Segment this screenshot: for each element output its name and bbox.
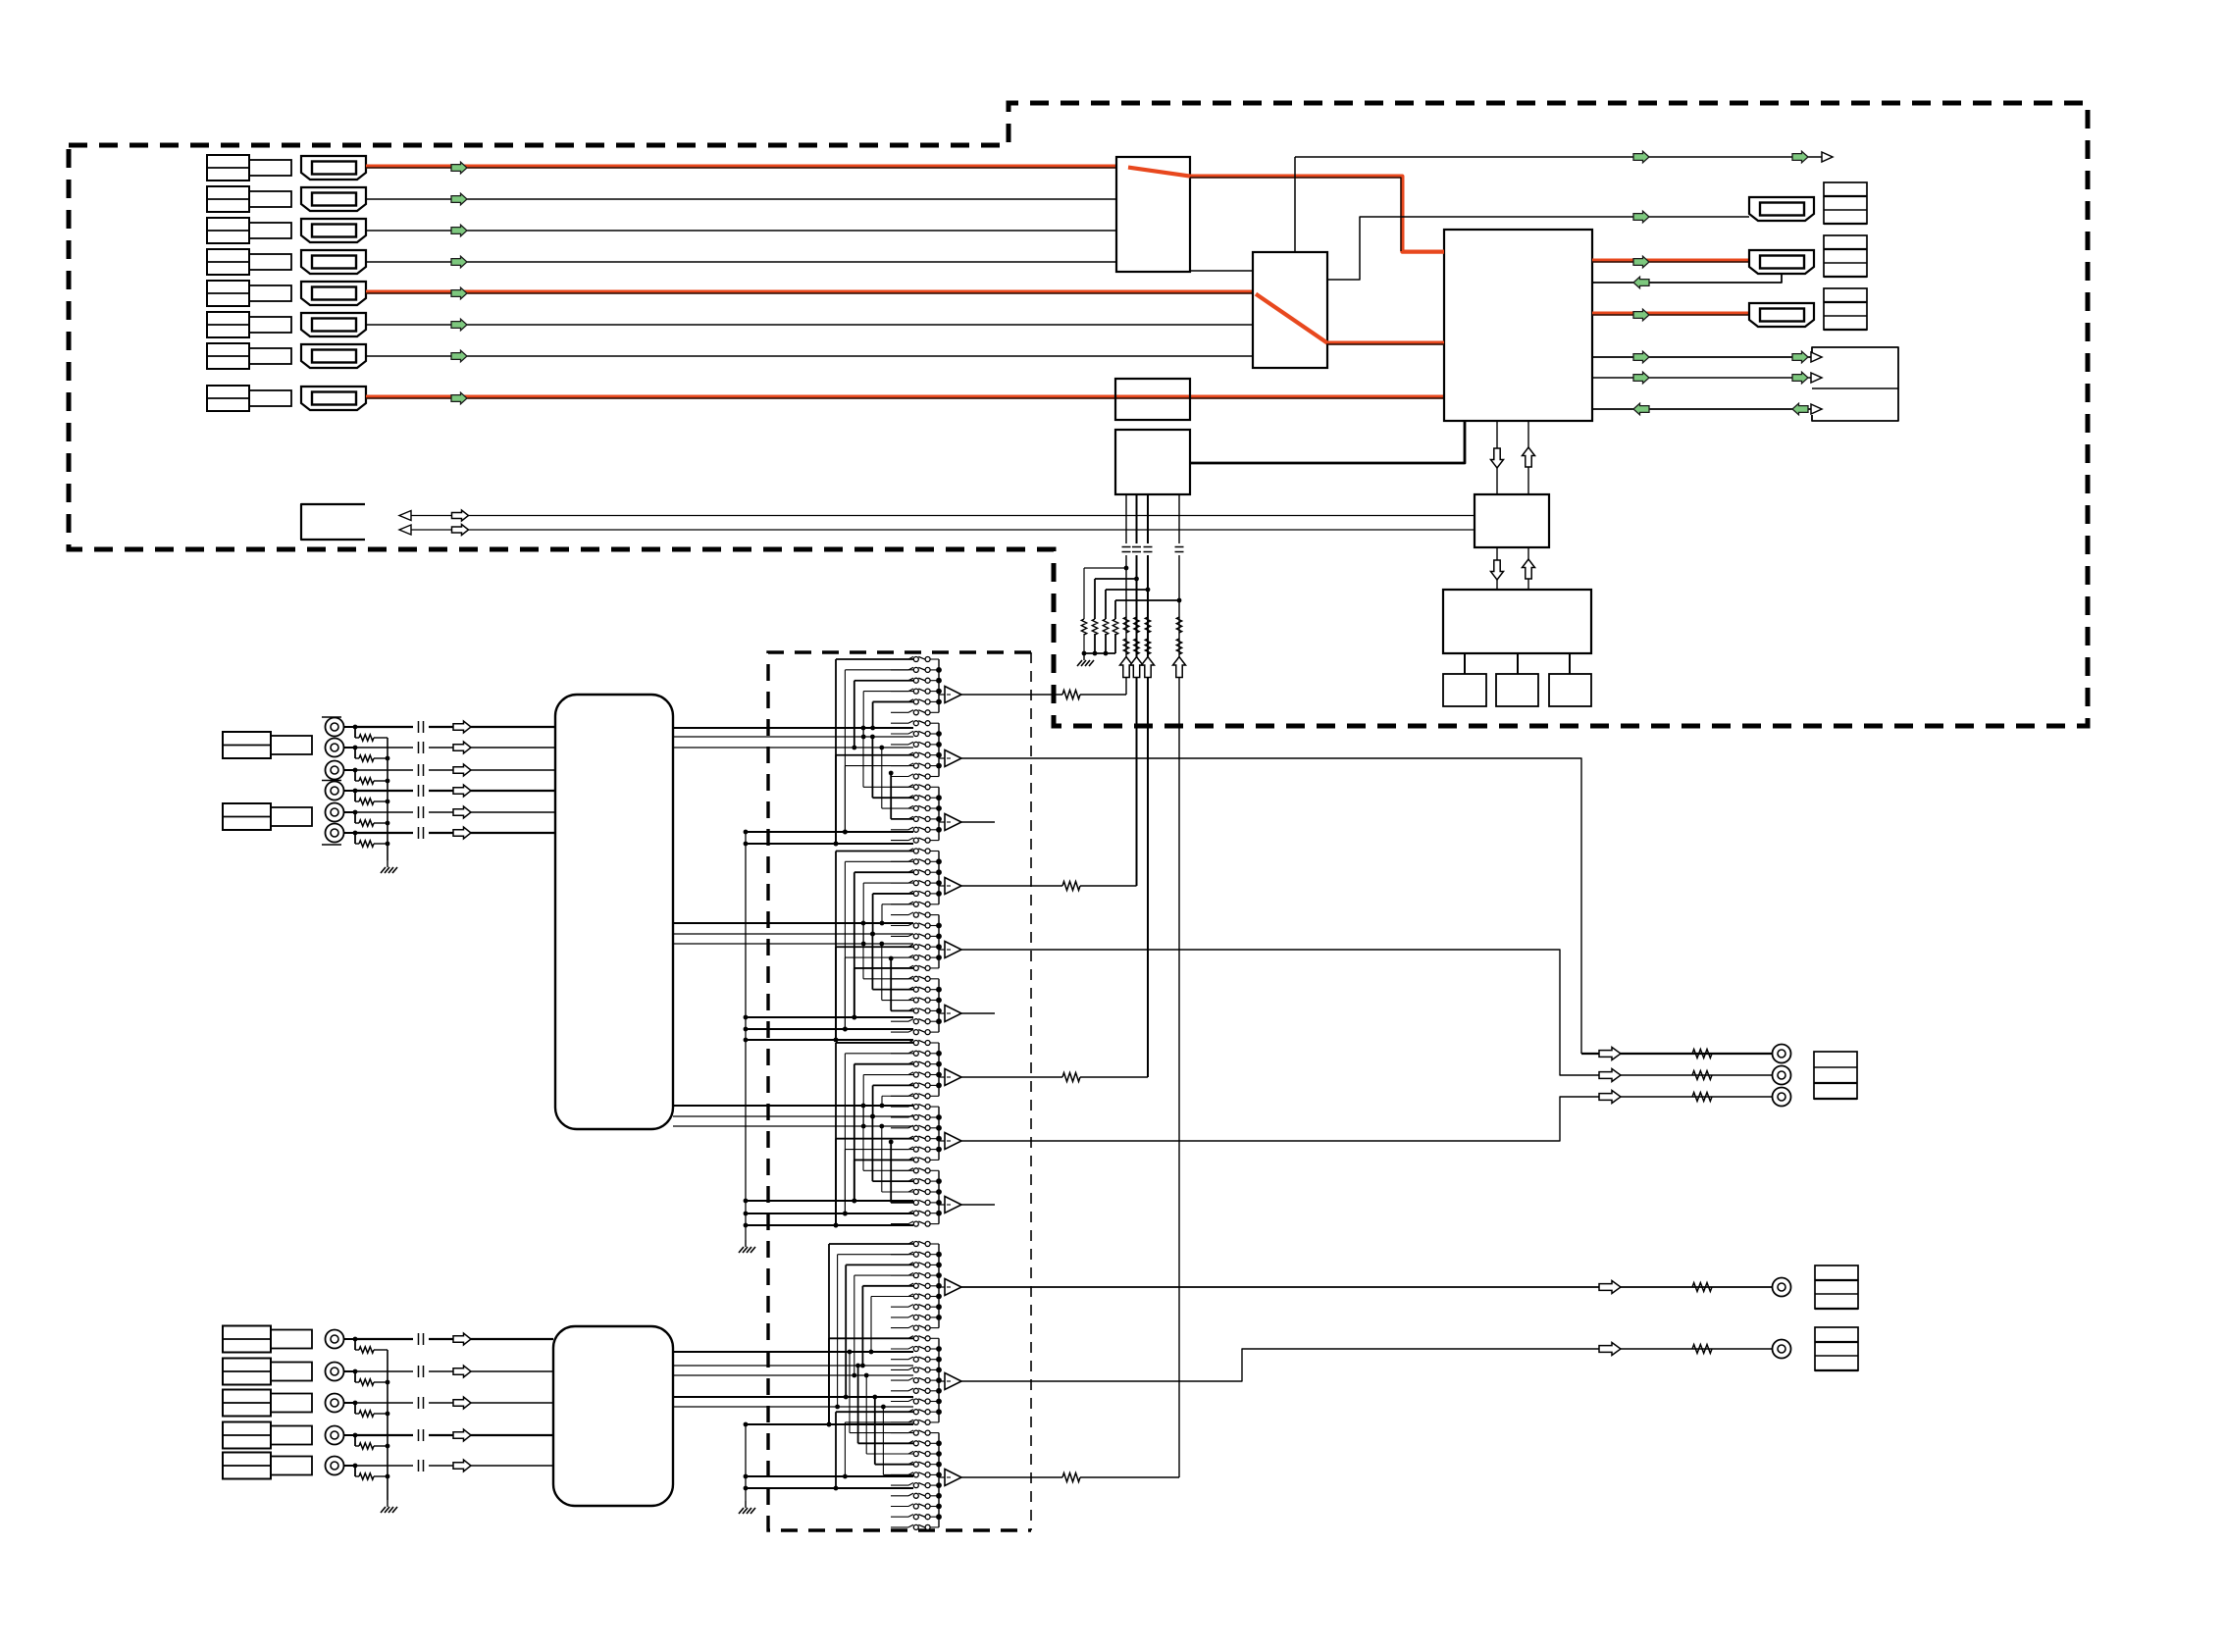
feeder ch3 bank2 drop 1 — [836, 1138, 913, 1140]
matrix common bus upper — [745, 832, 747, 1240]
input connector pair P5 — [207, 281, 249, 306]
analog switch SW56 — [891, 1254, 908, 1256]
analog switch SW21 — [891, 871, 908, 873]
feeder ch1 bank2 drop 2 — [845, 765, 913, 767]
box U3 main AV switch — [1444, 230, 1592, 421]
output route 3 (B8) — [961, 1097, 1772, 1141]
output route 4 (B10) — [961, 1286, 1772, 1288]
feeder ch3 bank1 drop 5 — [873, 1084, 913, 1086]
matrix output bus bank 9 — [938, 1170, 940, 1223]
feed line S4-4 — [673, 1396, 913, 1398]
analog switch SW17 — [891, 829, 908, 831]
output route 1 (B2) — [961, 758, 1581, 1054]
analog switch SW39 — [891, 1063, 908, 1065]
wire to bundle y1430 — [429, 1402, 553, 1404]
SCART connector J2 — [301, 187, 366, 211]
signal wire row 6 — [366, 324, 1253, 326]
analog switch SW67 — [891, 1368, 908, 1370]
green arrow row 6 — [451, 319, 467, 331]
wire jack stub y828 — [344, 811, 356, 813]
AV bus vertical V2 — [1136, 494, 1138, 543]
feed line S2-1 — [673, 922, 913, 924]
buffer amplifier B4 — [939, 885, 945, 887]
analog switch SW82 — [891, 1526, 908, 1528]
analog switch SW23 — [891, 893, 908, 895]
arrow signal direction y1398 — [453, 1366, 471, 1377]
wire U3 to G line2 — [1592, 377, 1812, 379]
red route through U1 — [1128, 168, 1190, 177]
wire to bundle y1365 — [429, 1338, 553, 1340]
analog switch SW58 — [891, 1274, 908, 1276]
feed line S4-2 — [673, 1365, 913, 1367]
analog switch SW26 — [891, 925, 908, 927]
analog switch SW30 — [891, 967, 908, 969]
buffer amplifier B5 — [939, 949, 945, 951]
arrow signal direction y828 — [453, 806, 471, 818]
coupling capacitor y806 — [418, 785, 420, 797]
feeder ch4 bank2b drop 2 — [845, 1421, 913, 1423]
buffer B6 stub — [961, 1012, 995, 1014]
wire jack stub y849 — [344, 832, 356, 834]
box control port (open right) — [301, 504, 365, 540]
analog switch SW12 — [891, 776, 908, 778]
wire H to M3 — [1569, 653, 1571, 674]
analog switch SW71 — [891, 1411, 908, 1413]
buffer B1 output to V1 — [961, 694, 1062, 696]
wire to bundle y1398 — [429, 1370, 553, 1372]
analog switch SW2 — [891, 669, 908, 671]
analog switch SW40 — [891, 1074, 908, 1076]
green arrow row 8 — [451, 392, 467, 404]
matrix output bus bank 10 — [938, 1244, 940, 1328]
wire jack stub y1494 — [344, 1465, 356, 1467]
termination resistor y785 — [354, 770, 356, 781]
analog switch SW4 — [891, 691, 908, 693]
analog switch SW47 — [891, 1149, 908, 1151]
arrow signal direction y1430 — [453, 1397, 471, 1409]
analog switch SW73 — [891, 1432, 908, 1434]
wire to bundle y1494 — [429, 1465, 553, 1467]
common feed line C6 — [746, 1200, 913, 1202]
feeder ch2 bank2 drop 2 — [845, 956, 913, 958]
buffer amplifier B9 — [939, 1204, 945, 1206]
coupling capacitor y1494 — [418, 1460, 420, 1471]
feeder ch2 bank2 drop 3 — [854, 967, 913, 969]
red signal wire row 5 — [366, 290, 1253, 294]
terminal block T3 — [1824, 288, 1867, 330]
coupling capacitor y785 — [418, 764, 420, 776]
feeder ch3 bank3 rise 1 — [863, 1169, 913, 1171]
wire jack stub y785 — [344, 769, 356, 771]
feeder ch2 bank1 drop 6 — [882, 903, 913, 905]
up arrow on V1 — [1120, 657, 1133, 678]
terminal block T1 — [1824, 182, 1867, 224]
series resistor pair on V4 — [1176, 617, 1181, 633]
buffer amplifier B10 — [939, 1286, 945, 1288]
analog switch SW68 — [891, 1379, 908, 1381]
box U5 interface — [1115, 430, 1190, 494]
feeder ch3 bank3 rise 2 — [872, 1180, 913, 1182]
wire to bundle y806 — [429, 790, 555, 792]
wire jack stub y1398 — [344, 1370, 356, 1372]
analog switch SW55 — [891, 1243, 908, 1245]
analog switch SW16 — [891, 818, 908, 820]
feed line S4-5 — [673, 1406, 913, 1408]
analog switch SW36 — [891, 1031, 908, 1033]
RCA output jack y1312 — [1773, 1278, 1791, 1297]
wire to bundle y1463 — [429, 1434, 553, 1436]
coupling capacitor y1430 — [418, 1397, 420, 1409]
series resistor output y1375 — [1692, 1345, 1712, 1354]
wire jack stub y1463 — [344, 1434, 356, 1436]
output route 2 (B5) — [961, 950, 1772, 1075]
analog switch SW74 — [891, 1442, 908, 1444]
analog switch SW9 — [891, 744, 908, 746]
analog switch SW42 — [891, 1095, 908, 1097]
analog switch SW62 — [891, 1316, 908, 1318]
matrix common bus lower — [745, 1424, 747, 1501]
feeder ch3 bank1 drop 2 — [845, 1053, 913, 1055]
bus F to U3 up — [1527, 421, 1529, 494]
analog switch SW14 — [891, 797, 908, 799]
control wire pair upper — [401, 515, 1475, 517]
analog switch SW31 — [891, 978, 908, 980]
termination resistor y806 — [354, 791, 356, 801]
SCART connector J5 — [301, 282, 366, 305]
feeder ch2 bank3 rise 4 — [891, 1009, 913, 1011]
analog switch SW24 — [891, 903, 908, 905]
box F controller — [1475, 494, 1549, 547]
connector pair upper B — [223, 803, 271, 830]
buffer B4 output to V2 — [961, 885, 1062, 887]
matrix output bus bank 2 — [938, 723, 940, 776]
analog switch SW6 — [891, 711, 908, 713]
feeder ch4 bank1 drop 6 — [871, 1296, 913, 1298]
analog switch SW61 — [891, 1306, 908, 1308]
buffer B9 stub — [961, 1204, 995, 1206]
analog switch SW3 — [891, 680, 908, 682]
analog switch SW13 — [891, 786, 908, 788]
coupling capacitor y1398 — [418, 1366, 420, 1377]
feeder ch2 bank1 drop 3 — [854, 871, 913, 873]
wire H to M2 — [1517, 653, 1519, 674]
connector pair lower 2 — [223, 1359, 271, 1385]
HDMI output connector K1 — [1749, 197, 1814, 221]
feeder ch1 bank1 drop 1 — [836, 658, 913, 660]
box U1 input selector A — [1116, 157, 1190, 272]
green arrow row 5 — [451, 287, 467, 299]
analog switch SW27 — [891, 935, 908, 937]
coupling capacitor y741 — [418, 721, 420, 733]
coupling capacitor y1365 — [418, 1333, 420, 1345]
feeder ch1 bank3 rise 1 — [863, 786, 913, 788]
termination resistor y741 — [354, 727, 356, 738]
feeder ch1 bank1 drop 2 — [845, 669, 913, 671]
buffer amplifier B2 — [939, 757, 945, 759]
up arrow on V2 — [1130, 657, 1143, 678]
RCA jack at y1463 — [326, 1426, 344, 1445]
input connector pair P8 — [207, 386, 249, 411]
wire U3 to G line3 — [1592, 408, 1812, 410]
termination resistor y849 — [354, 833, 356, 844]
wire jack stub y1430 — [344, 1402, 356, 1404]
analog switch SW22 — [891, 882, 908, 884]
feeder ch1 bank1 drop 3 — [854, 680, 913, 682]
analog switch SW78 — [891, 1484, 908, 1486]
feed line S1-3 — [673, 747, 913, 749]
feeder ch4 bank1 drop 5 — [862, 1285, 913, 1287]
common feed line C5 — [746, 1039, 913, 1041]
HDMI output connector K3 — [1749, 303, 1814, 327]
input connector pair P2 — [207, 186, 249, 212]
analog switch SW38 — [891, 1053, 908, 1055]
output terminal block T6 — [1815, 1327, 1858, 1370]
red output wire to HDMI3 — [1592, 312, 1749, 316]
common feed line C1 — [746, 831, 913, 833]
red signal wire row 1 — [366, 165, 1116, 169]
connector pair upper A — [223, 732, 271, 758]
signal wire row 4 — [366, 261, 1116, 263]
analog switch SW35 — [891, 1020, 908, 1022]
common feed line C7 — [746, 1213, 913, 1214]
feed line S4-3 — [673, 1374, 913, 1376]
feeder ch4 bank3 rise 4 — [875, 1464, 913, 1466]
RCA jack at y741 — [326, 718, 344, 737]
group tick marks upper jacks — [322, 716, 341, 718]
feeder ch3 bank1 drop 4 — [863, 1074, 913, 1076]
analog switch SW49 — [891, 1169, 908, 1171]
feeder ch3 bank3 rise 3 — [882, 1191, 913, 1193]
analog switch SW15 — [891, 807, 908, 809]
analog switch SW34 — [891, 1009, 908, 1011]
box G right interface — [1812, 347, 1898, 421]
common feed line C2 — [746, 843, 913, 845]
dashed enclosure switch-matrix — [768, 652, 1031, 1530]
green arrow row 2 — [451, 193, 467, 205]
input connector pair P6 — [207, 312, 249, 337]
feeder ch4 bank3 rise 3 — [866, 1453, 913, 1455]
coupling capacitor y849 — [418, 827, 420, 839]
termination resistor y1463 — [354, 1435, 356, 1446]
analog switch SW60 — [891, 1296, 908, 1298]
buffer amplifier B6 — [939, 1012, 945, 1014]
analog switch SW37 — [891, 1042, 908, 1044]
box M2 memory — [1496, 674, 1538, 706]
ground bus lower jacks — [387, 1350, 388, 1500]
wire jack stub y1365 — [344, 1338, 356, 1340]
return wire from HDMI2 — [1592, 274, 1782, 283]
termination resistor y1430 — [354, 1403, 356, 1414]
matrix output bus bank 8 — [938, 1107, 940, 1160]
matrix output bus bank 3 — [938, 787, 940, 840]
series resistor pair on V2 — [1134, 617, 1139, 633]
bus F to H down — [1496, 547, 1498, 590]
bias branch 3 — [1146, 588, 1151, 593]
analog switch SW1 — [891, 658, 908, 660]
analog switch SW8 — [891, 733, 908, 735]
matrix output bus bank 4 — [938, 852, 940, 904]
analog switch SW63 — [891, 1327, 908, 1329]
wire to bundle y762 — [429, 747, 555, 749]
series resistor output y1312 — [1692, 1283, 1712, 1292]
buffer B7 output to V3 — [961, 1076, 1062, 1078]
analog switch SW43 — [891, 1106, 908, 1108]
analog switch SW19 — [891, 851, 908, 852]
output route 5 (B11) — [961, 1349, 1772, 1381]
analog switch SW81 — [891, 1516, 908, 1518]
arrow signal direction y1494 — [453, 1460, 471, 1471]
common feed line C4 — [746, 1028, 913, 1030]
feeder ch3 bank1 drop 1 — [836, 1042, 913, 1044]
RCA jack at y1398 — [326, 1363, 344, 1381]
thick wire U3 to U5 — [1190, 421, 1465, 463]
feeder ch2 bank1 drop 1 — [836, 850, 913, 852]
feed line S3-3 — [673, 1125, 913, 1127]
wire top output line 2 — [1327, 217, 1749, 280]
termination resistor y1365 — [354, 1339, 356, 1350]
buffer B12 output to V4 — [961, 1476, 1062, 1478]
analog switch SW33 — [891, 1000, 908, 1002]
up arrow on V4 — [1173, 657, 1186, 678]
analog switch SW28 — [891, 946, 908, 948]
cable bundle upper — [555, 695, 673, 1129]
termination resistor y762 — [354, 748, 356, 758]
arrow signal direction y1463 — [453, 1429, 471, 1441]
buffer amplifier B1 — [939, 694, 945, 696]
analog switch SW59 — [891, 1285, 908, 1287]
buffer amplifier B11 — [939, 1380, 945, 1382]
feed line S4-1 — [673, 1351, 913, 1353]
buffer amplifier B7 — [939, 1076, 945, 1078]
connector pair lower 5 — [223, 1453, 271, 1479]
analog switch SW57 — [891, 1264, 908, 1265]
matrix output bus bank 6 — [938, 979, 940, 1032]
termination resistor y1494 — [354, 1466, 356, 1476]
AV bus vertical V4 — [1178, 494, 1180, 543]
feeder ch2 bank1 drop 4 — [863, 882, 913, 884]
control wire pair lower — [401, 529, 1475, 531]
feeder ch1 bank3 rise 3 — [882, 807, 913, 809]
wire U3 to G line1 — [1592, 356, 1812, 358]
arrow output y1312 — [1599, 1281, 1621, 1294]
wire to bundle y785 — [429, 769, 555, 771]
feeder ch2 bank1 drop 5 — [873, 893, 913, 895]
analog switch SW51 — [891, 1191, 908, 1193]
box M3 memory — [1549, 674, 1591, 706]
feeder ch4 bank2b drop 1 — [836, 1411, 913, 1413]
feeder ch4 bank1 drop 3 — [846, 1264, 913, 1265]
analog switch SW70 — [891, 1401, 908, 1403]
common feed line C8 — [746, 1224, 913, 1226]
analog switch SW11 — [891, 765, 908, 767]
connector pair lower 4 — [223, 1422, 271, 1449]
HDMI output connector K2 — [1749, 250, 1814, 274]
analog switch SW53 — [891, 1213, 908, 1214]
feeder ch3 bank3 rise 4 — [891, 1202, 913, 1204]
wire to bundle y849 — [429, 832, 555, 834]
series resistor pair on V3 — [1145, 617, 1150, 633]
bus U3 to F down — [1496, 421, 1498, 494]
RCA jack at y1494 — [326, 1457, 344, 1475]
termination resistor y1398 — [354, 1371, 356, 1382]
RCA jack at y806 — [326, 782, 344, 800]
output terminal block T5 — [1815, 1265, 1858, 1309]
SCART connector J1 — [301, 156, 366, 180]
arrow signal direction y741 — [453, 721, 471, 733]
analog switch SW41 — [891, 1084, 908, 1086]
feeder ch4 bank1 drop 2 — [838, 1254, 913, 1256]
buffer amplifier B12 — [939, 1476, 945, 1478]
RCA output jack y1118 — [1773, 1088, 1791, 1107]
feed line S3-2 — [673, 1115, 913, 1117]
feeder ch3 bank2 drop 2 — [845, 1149, 913, 1151]
feeder ch2 bank3 rise 3 — [882, 1000, 913, 1002]
coupling capacitor y828 — [418, 806, 420, 818]
common feed line C3 — [746, 1016, 913, 1018]
analog switch SW45 — [891, 1127, 908, 1129]
feeder ch2 bank1 drop 2 — [845, 860, 913, 862]
RCA output jack y1375 — [1773, 1340, 1791, 1359]
connector pair lower 3 — [223, 1390, 271, 1417]
buffer amplifier B3 — [939, 821, 945, 823]
feeder ch1 bank1 drop 4 — [863, 691, 913, 693]
input connector pair P1 — [207, 155, 249, 181]
input connector pair P4 — [207, 249, 249, 275]
signal wire row 2 — [366, 198, 1116, 200]
common feed line D1 — [746, 1423, 913, 1425]
buffer amplifier B8 — [939, 1140, 945, 1142]
analog switch SW25 — [891, 914, 908, 916]
feeder ch4 bank3 rise 5 — [883, 1473, 913, 1475]
matrix output bus bank 7 — [938, 1043, 940, 1096]
input connector pair P3 — [207, 218, 249, 243]
RCA jack at y828 — [326, 803, 344, 822]
matrix output bus bank 5 — [938, 915, 940, 968]
RCA output jack y1096 — [1773, 1066, 1791, 1085]
connector pair lower 1 — [223, 1326, 271, 1353]
bias branch 4 — [1177, 598, 1182, 603]
wire to bundle y828 — [429, 811, 555, 813]
analog switch SW32 — [891, 989, 908, 991]
arrow output y1118 — [1599, 1091, 1621, 1104]
up arrow on V3 — [1142, 657, 1155, 678]
cable bundle lower — [553, 1326, 673, 1506]
analog switch SW54 — [891, 1223, 908, 1225]
analog switch SW5 — [891, 700, 908, 702]
green arrow row 1 — [451, 162, 467, 174]
red route through U2 — [1256, 294, 1327, 343]
RCA jack at y849 — [326, 824, 344, 843]
feeder ch1 bank2 drop 1 — [836, 754, 913, 756]
RCA jack at y1430 — [326, 1394, 344, 1413]
coupling capacitor y1463 — [418, 1429, 420, 1441]
analog switch SW72 — [891, 1421, 908, 1423]
series resistor pair on V1 — [1123, 617, 1128, 633]
wire jack stub y762 — [344, 747, 356, 749]
matrix output bus bank 11 — [938, 1338, 940, 1422]
analog switch SW76 — [891, 1464, 908, 1466]
red signal wire row 8 — [366, 395, 1444, 399]
feeder ch1 bank1 drop 5 — [873, 700, 913, 702]
wire jack stub y806 — [344, 790, 356, 792]
signal wire row 3 — [366, 230, 1116, 232]
arrow signal direction y849 — [453, 827, 471, 839]
feeder ch4 bank2a drop 1 — [829, 1337, 913, 1339]
terminal block T2 — [1824, 235, 1867, 277]
ground bus upper jacks — [387, 738, 388, 860]
feeder ch1 bank3 rise 2 — [872, 797, 913, 799]
arrow output y1096 — [1599, 1069, 1621, 1082]
